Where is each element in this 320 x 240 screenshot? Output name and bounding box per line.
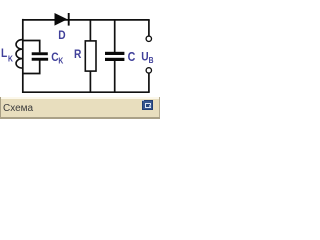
wire CK top branch <box>23 41 40 53</box>
label UB <box>141 51 154 66</box>
bar icon button <box>142 100 153 111</box>
wire right vertical upper <box>148 20 150 36</box>
wire bottom rail <box>22 91 150 93</box>
svg-text:R: R <box>74 48 81 61</box>
capacitor C plates <box>105 52 124 61</box>
terminal bottom circle <box>146 68 151 73</box>
svg-text:B: B <box>149 56 154 66</box>
label LK <box>1 48 13 64</box>
bottom tab bar <box>0 97 160 120</box>
capacitor CK plates <box>32 52 48 60</box>
label CK <box>51 52 64 66</box>
wire left vertical upper <box>22 19 24 40</box>
inductor LK <box>16 40 23 69</box>
svg-text:K: K <box>58 56 63 66</box>
wire C branch upper <box>114 20 116 52</box>
terminal top circle <box>146 36 151 41</box>
svg-text:U: U <box>141 51 148 64</box>
diode D symbol <box>55 13 69 26</box>
wire right vertical lower <box>148 73 150 92</box>
resistor R body <box>85 41 96 71</box>
wire CK bottom branch <box>23 61 40 74</box>
wire R branch upper <box>89 20 91 41</box>
wire top rail <box>22 19 150 21</box>
wire C branch lower <box>114 61 116 92</box>
svg-text:K: K <box>8 54 13 64</box>
wire R branch lower <box>89 71 91 92</box>
wire left vertical lower <box>22 68 24 93</box>
svg-text:C: C <box>128 50 136 64</box>
svg-text:D: D <box>58 29 65 42</box>
bar label Схема <box>3 103 33 114</box>
svg-text:L: L <box>1 48 7 61</box>
